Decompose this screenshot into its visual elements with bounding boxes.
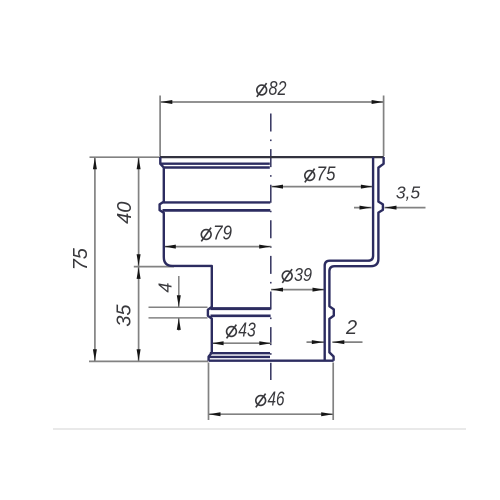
part outline right inner section bbox=[325, 157, 373, 361]
rim bottom edge lines left bbox=[160, 162, 269, 164]
page divider line bbox=[53, 428, 466, 430]
svg-text:79: 79 bbox=[213, 223, 232, 245]
extension line vertical left of o82 bbox=[159, 96, 161, 157]
dimension 75 vertical bbox=[70, 157, 97, 361]
extension line mid-left (40/35 boundary) bbox=[134, 266, 174, 268]
dimension 3,5 bbox=[354, 183, 426, 210]
svg-text:2: 2 bbox=[345, 317, 357, 339]
svg-text:82: 82 bbox=[269, 78, 287, 100]
extension lines vertical of o46 bbox=[208, 363, 210, 421]
svg-text:39: 39 bbox=[294, 264, 312, 285]
svg-text:43: 43 bbox=[238, 320, 256, 342]
dimension o79 bbox=[164, 223, 271, 249]
lower bead lines left bbox=[211, 307, 271, 310]
extension line vertical right of o82 bbox=[383, 96, 385, 157]
svg-text:3,5: 3,5 bbox=[396, 183, 421, 203]
dimension o39 bbox=[271, 264, 325, 292]
dimension o75 bbox=[271, 164, 373, 189]
extension lines of 4-dim bead bbox=[149, 306, 208, 308]
flange ring lines left bbox=[210, 352, 270, 354]
extension line top-left (75/40) bbox=[90, 156, 161, 158]
dimension o46 bbox=[209, 389, 334, 417]
centerline bbox=[270, 114, 272, 381]
upper bead lines left bbox=[163, 201, 271, 203]
part outline left exterior half bbox=[160, 157, 212, 361]
part top edge bbox=[160, 156, 384, 158]
svg-text:75: 75 bbox=[317, 164, 337, 186]
svg-text:40: 40 bbox=[114, 202, 136, 224]
svg-text:46: 46 bbox=[268, 389, 286, 411]
part bottom edge bbox=[209, 360, 334, 362]
svg-text:4: 4 bbox=[156, 283, 176, 293]
svg-text:75: 75 bbox=[70, 247, 92, 270]
dimension 4 bbox=[156, 276, 181, 331]
dimension 2 bbox=[307, 317, 363, 344]
svg-text:35: 35 bbox=[114, 304, 136, 327]
dimension o82 bbox=[160, 78, 383, 104]
dimension o43 bbox=[212, 320, 272, 346]
dimension 40 and 35 vertical bbox=[114, 157, 141, 361]
extension line bottom-left bbox=[89, 360, 208, 362]
part outline right outer section bbox=[329, 157, 383, 361]
